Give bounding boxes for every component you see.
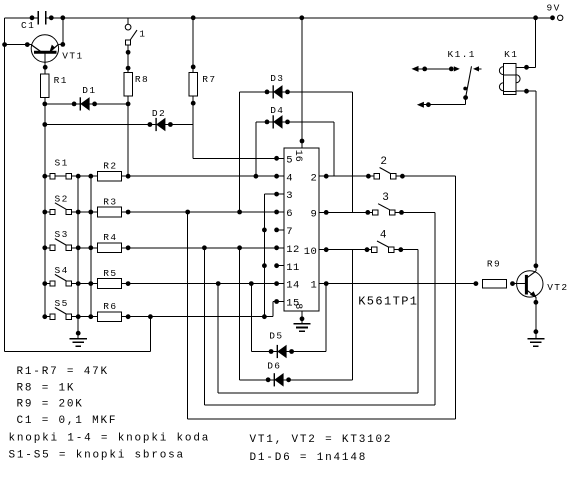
resistor R7 xyxy=(189,18,217,106)
wire R8 bottom to R2 row xyxy=(126,96,131,176)
capacitor C1 xyxy=(21,11,46,31)
svg-text:3: 3 xyxy=(382,192,390,204)
wire pin 9 row xyxy=(326,211,435,213)
wire R2 row to pin 4 xyxy=(128,174,277,179)
svg-text:S1: S1 xyxy=(55,158,69,169)
wire VT1 emitter to rail xyxy=(60,18,65,47)
pin 7 xyxy=(274,226,293,238)
pin 6 xyxy=(274,208,293,220)
svg-text:10: 10 xyxy=(304,246,317,258)
svg-text:C1 = 0,1 MKF: C1 = 0,1 MKF xyxy=(17,415,118,427)
resistor R1 xyxy=(41,65,68,104)
svg-text:8: 8 xyxy=(292,303,303,309)
svg-text:R9: R9 xyxy=(487,259,501,270)
pin 16 xyxy=(292,139,305,162)
wire D1 row xyxy=(45,103,128,105)
svg-text:R2: R2 xyxy=(103,161,117,172)
switch S5 xyxy=(42,298,97,319)
switch knopka 3 xyxy=(365,192,404,215)
wire VT1 base row xyxy=(2,42,31,47)
wire switch common rail to ground xyxy=(76,176,81,338)
wire K1 to VT2 collector xyxy=(534,91,539,271)
text component values xyxy=(17,366,118,427)
switch knopka 4 xyxy=(365,229,404,252)
svg-text:D1-D6 = 1n4148: D1-D6 = 1n4148 xyxy=(250,452,368,464)
pin 14 xyxy=(274,280,300,292)
svg-text:16: 16 xyxy=(292,150,303,162)
svg-text:K1: K1 xyxy=(504,49,518,60)
diode D5 xyxy=(251,284,326,359)
svg-text:R9 = 20K: R9 = 20K xyxy=(17,399,84,411)
svg-text:K561TP1: K561TP1 xyxy=(358,294,418,308)
svg-text:2: 2 xyxy=(380,156,388,168)
pin 12 xyxy=(274,244,300,256)
pin 10 xyxy=(304,246,329,258)
svg-text:4: 4 xyxy=(286,172,293,184)
diode D1 xyxy=(72,85,97,111)
resistor R5 xyxy=(98,268,131,289)
svg-text:D4: D4 xyxy=(270,105,284,116)
svg-text:1: 1 xyxy=(139,29,146,40)
svg-text:R4: R4 xyxy=(103,232,117,243)
pin 1 xyxy=(310,280,328,292)
switch knopka 1 xyxy=(125,18,146,73)
transistor VT2 xyxy=(513,271,569,298)
svg-text:VT2: VT2 xyxy=(547,282,568,293)
ground under VT2 xyxy=(527,339,544,347)
9V power rail xyxy=(5,15,555,44)
wire knopka 2 loop to pin 6 row xyxy=(188,176,456,419)
wire pin 2 row xyxy=(326,175,455,177)
svg-text:R3: R3 xyxy=(103,196,117,207)
svg-text:VT1: VT1 xyxy=(62,50,83,61)
pin 8 xyxy=(292,303,305,324)
svg-text:D5: D5 xyxy=(269,330,283,341)
svg-text:R7: R7 xyxy=(202,74,216,85)
svg-text:knopki 1-4 = knopki koda: knopki 1-4 = knopki koda xyxy=(9,432,211,444)
switch S3 xyxy=(42,229,97,250)
diode D3 xyxy=(240,73,353,213)
svg-text:R6: R6 xyxy=(103,301,117,312)
svg-text:R8 = 1K: R8 = 1K xyxy=(17,382,76,394)
svg-text:S5: S5 xyxy=(55,298,69,309)
switch S2 xyxy=(42,193,97,214)
wire knopka 4 loop to pin 14 row xyxy=(218,250,418,394)
svg-text:3: 3 xyxy=(286,190,293,202)
svg-text:D2: D2 xyxy=(152,108,166,119)
svg-text:S4: S4 xyxy=(55,265,69,276)
pin 5 xyxy=(274,154,293,166)
svg-text:D6: D6 xyxy=(267,360,281,371)
wire R3 row to pin 6 xyxy=(128,210,277,215)
diode D6 xyxy=(240,248,353,387)
svg-text:K1.1: K1.1 xyxy=(448,49,476,60)
resistor R9 xyxy=(474,259,515,289)
ground under pin 8 xyxy=(293,324,310,332)
resistor R4 xyxy=(98,232,131,253)
wire pin 15 to R6 row xyxy=(273,302,277,317)
wire VT2 emitter to ground xyxy=(534,297,539,338)
wire pin 3/7/11 bus xyxy=(262,194,277,319)
wire pin 10 row xyxy=(326,249,418,251)
text semiconductor types xyxy=(250,434,393,464)
wire R5 row to pin 14 xyxy=(128,281,277,286)
wire S-column vertical xyxy=(44,104,46,317)
node R1/D1/S-column junction xyxy=(42,102,47,107)
wire K1 bottom lead xyxy=(516,89,536,94)
switch knopka 2 xyxy=(366,156,405,179)
switch S1 xyxy=(42,158,97,179)
text button legend xyxy=(9,432,211,461)
switch S4 xyxy=(42,265,97,286)
pin 3 xyxy=(274,190,293,202)
wire pin 1 row to R9 xyxy=(326,283,476,285)
diode D2 xyxy=(148,108,173,131)
svg-text:14: 14 xyxy=(286,280,299,292)
svg-text:D1: D1 xyxy=(82,85,96,96)
resistor R2 xyxy=(98,161,131,182)
wire feedback loop to VT1 base xyxy=(5,45,151,352)
pin 4 xyxy=(274,172,293,184)
op-amp U1 K561TP1 IC body xyxy=(284,148,419,311)
wire pin16 to rail xyxy=(301,18,303,141)
diode D4 xyxy=(256,105,334,176)
resistor R3 xyxy=(98,196,131,217)
wire R6 row xyxy=(128,314,273,319)
svg-text:VT1, VT2 = KT3102: VT1, VT2 = KT3102 xyxy=(250,434,393,446)
wire D2 row xyxy=(42,122,193,127)
ground under switches xyxy=(70,339,87,347)
relay coil K1 xyxy=(499,49,520,94)
pin 2 xyxy=(310,172,328,184)
svg-text:11: 11 xyxy=(286,262,299,274)
pin 11 xyxy=(274,262,300,274)
svg-text:R8: R8 xyxy=(135,74,149,85)
pin 15 xyxy=(274,298,300,310)
svg-text:S2: S2 xyxy=(55,193,69,204)
svg-text:6: 6 xyxy=(286,208,293,220)
svg-text:9V: 9V xyxy=(547,3,561,14)
relay contact K1.1 xyxy=(412,49,482,107)
svg-text:R1-R7 = 47K: R1-R7 = 47K xyxy=(17,366,109,378)
wire knopka 3 loop to pin 12 row xyxy=(204,212,434,405)
svg-text:7: 7 xyxy=(286,226,293,238)
svg-text:C1: C1 xyxy=(21,20,35,31)
svg-text:9: 9 xyxy=(310,209,317,221)
wire R7 to pin 5 xyxy=(193,96,276,158)
svg-text:S3: S3 xyxy=(55,229,69,240)
svg-text:1: 1 xyxy=(310,280,317,292)
svg-text:S1-S5 = knopki sbrosa: S1-S5 = knopki sbrosa xyxy=(9,450,185,462)
wire K1 top lead xyxy=(516,18,536,70)
svg-text:R5: R5 xyxy=(103,268,117,279)
wire resistor-left rail xyxy=(90,176,92,317)
pin 9 xyxy=(310,209,328,221)
resistor R6 xyxy=(98,301,131,321)
svg-text:D3: D3 xyxy=(270,73,284,84)
svg-text:R1: R1 xyxy=(54,75,68,86)
wire R4 row to pin 12 xyxy=(128,245,277,250)
transistor VT1 xyxy=(31,35,83,68)
svg-text:4: 4 xyxy=(380,229,388,241)
resistor R8 xyxy=(124,73,149,97)
svg-text:12: 12 xyxy=(286,244,299,256)
9V terminal xyxy=(547,3,563,21)
svg-text:2: 2 xyxy=(310,172,317,184)
